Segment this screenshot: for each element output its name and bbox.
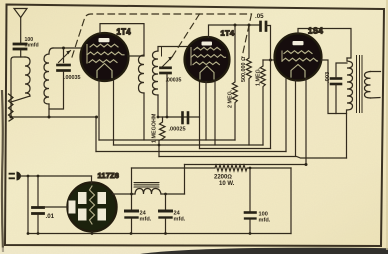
secondary winding xyxy=(365,72,371,99)
variable capacitor .00035 (second) xyxy=(161,66,171,69)
wire V3 screen lead right xyxy=(322,60,347,114)
svg-text:2 MEG.: 2 MEG. xyxy=(228,89,234,108)
wire plate of V1 to coil xyxy=(100,24,144,55)
resistor 500,000 ohm xyxy=(246,25,251,145)
coil L4 oscillator xyxy=(153,51,159,95)
svg-text:1 MEG.: 1 MEG. xyxy=(256,67,262,86)
wire drop to lower bus xyxy=(95,117,97,152)
core xyxy=(357,56,363,113)
coil L2 secondary xyxy=(49,48,53,54)
power line plug xyxy=(10,174,15,179)
dashed gang line xyxy=(72,14,252,57)
scan artifact left edge xyxy=(2,90,3,252)
svg-text:2200Ω: 2200Ω xyxy=(214,175,232,181)
wire bus G y164.5 B plus xyxy=(185,164,307,166)
capacitor .01 line filter xyxy=(37,176,39,207)
capacitor .003 xyxy=(331,77,341,80)
svg-text:mfd.: mfd. xyxy=(259,218,271,224)
resistor 2200 ohm 10W xyxy=(132,165,292,171)
wire tuning cap return xyxy=(49,72,64,110)
capacitor 100 mmfd xyxy=(14,43,26,46)
antenna xyxy=(14,9,27,18)
filter choke L5 xyxy=(134,182,185,194)
paper below border lighter xyxy=(0,248,388,254)
resistor 1 megohm grid leak xyxy=(159,117,165,145)
wire grid lead tube V1 xyxy=(53,47,83,49)
wire V1 right lead xyxy=(128,55,144,57)
wire plate V2 to coupling cap xyxy=(209,25,260,38)
svg-text:.00035: .00035 xyxy=(64,75,81,81)
wire grid lead V3 xyxy=(263,59,275,61)
value labels xyxy=(25,13,332,224)
resistor 2 meg xyxy=(232,25,237,140)
coil L3 xyxy=(139,55,145,93)
wire bus B y145 xyxy=(114,144,264,146)
wire bus E y156.5 xyxy=(159,157,347,159)
scan artifact bottom dark band xyxy=(140,248,388,254)
svg-text:1S4: 1S4 xyxy=(308,27,324,36)
svg-text:1T4: 1T4 xyxy=(117,28,132,37)
wire V4 bottom lead xyxy=(91,232,93,234)
capacitor 100 mfd xyxy=(249,168,251,212)
svg-text:117Z6: 117Z6 xyxy=(98,171,120,180)
svg-text:mfd.: mfd. xyxy=(174,217,186,223)
wire V4 top lead xyxy=(91,176,93,183)
wire cap2 bottom lead xyxy=(166,74,168,117)
wire V1 bottom leads xyxy=(98,80,100,140)
wire power bottom bus xyxy=(28,233,291,235)
wire V2 bottom leads xyxy=(205,82,207,141)
variable capacitor .00035 (first) xyxy=(58,64,70,67)
svg-text:.00035: .00035 xyxy=(166,78,182,84)
wire line drop left xyxy=(27,176,29,234)
svg-text:.05: .05 xyxy=(255,13,264,20)
wire V2 grid drop xyxy=(199,81,201,149)
tube V2 1T4 xyxy=(185,37,230,82)
capacitor 24 mfd first xyxy=(131,168,133,210)
primary winding xyxy=(346,58,348,61)
svg-text:1T4: 1T4 xyxy=(221,29,235,38)
svg-text:1 MEGOHM: 1 MEGOHM xyxy=(152,113,158,143)
wire V3 bottom leads xyxy=(285,78,287,152)
wire bus A y140 xyxy=(99,139,235,141)
ground squiggle at left edge xyxy=(9,94,14,121)
scan artifact right edge shadow xyxy=(386,0,388,250)
tube V1 1T4 xyxy=(81,33,129,81)
wire .05 return drop xyxy=(270,60,272,149)
wire grid return xyxy=(158,116,200,118)
wire plug to circuit xyxy=(20,175,92,177)
wire choke output riser xyxy=(184,165,186,195)
svg-text:.01: .01 xyxy=(46,213,55,220)
wire power box right side xyxy=(290,168,292,234)
svg-text:mfd.: mfd. xyxy=(140,217,152,223)
speaker leads to border xyxy=(371,72,381,99)
wire bus C y148.5 xyxy=(200,148,271,150)
svg-text:.00025: .00025 xyxy=(169,127,186,133)
wire bus D y151.5 xyxy=(96,151,286,153)
output transformer T1 xyxy=(347,56,381,159)
wire V4 cathode to .01 xyxy=(44,206,69,208)
svg-text:10 W.: 10 W. xyxy=(219,181,235,187)
tube V3 1S4 xyxy=(275,34,322,81)
wire coil top to grid of V2 xyxy=(158,47,189,52)
tube V4 117Z6 rectifier xyxy=(68,183,117,232)
wire V4 output lead xyxy=(113,193,136,195)
svg-text:mmfd: mmfd xyxy=(25,43,39,49)
capacitor .05 xyxy=(259,22,262,31)
wire plate V3 to transformer xyxy=(298,29,351,59)
capacitor .00025 xyxy=(181,113,184,124)
capacitor 24 mfd second xyxy=(165,194,167,210)
coil L1 antenna primary xyxy=(11,57,25,117)
svg-text:500,000 Ω: 500,000 Ω xyxy=(241,57,247,82)
wire ground bus left xyxy=(11,116,96,118)
resistor 1 meg xyxy=(260,60,265,145)
wire .05 to grid V3 xyxy=(266,26,271,61)
svg-text:.003: .003 xyxy=(325,71,331,83)
